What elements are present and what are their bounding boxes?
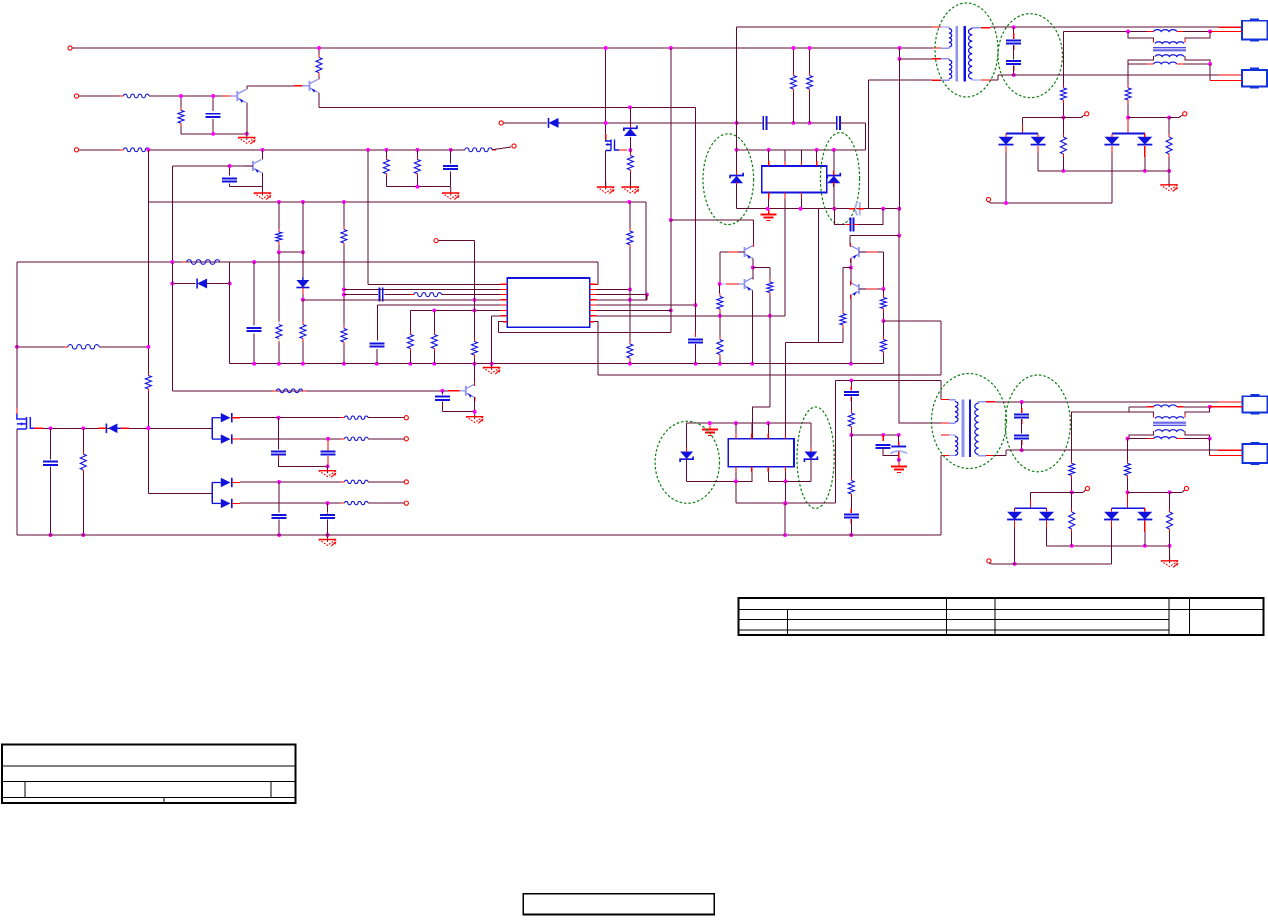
IC U2 bottom pin — [784, 199, 786, 209]
capacitor C11 — [688, 339, 703, 342]
diode D10 — [212, 434, 232, 443]
wire R40 out — [368, 481, 404, 483]
IC U2 top pin — [768, 150, 770, 161]
wire rect1 tap east — [1063, 117, 1081, 119]
transistor Q5 — [850, 246, 866, 260]
IC U2 bottom pin — [768, 199, 770, 209]
table line — [1189, 598, 1191, 635]
junction — [415, 148, 419, 152]
junction — [342, 362, 346, 366]
wire vert819 — [818, 209, 820, 343]
wire C1 top — [212, 96, 214, 111]
wire R45 bot — [1169, 532, 1171, 546]
transistor Q6 — [737, 278, 753, 292]
wire Q3 gnd link — [230, 186, 263, 188]
wire net1 top — [72, 47, 932, 49]
wire row L3 e — [442, 294, 508, 296]
table line — [739, 619, 1170, 621]
wire ct col a — [898, 435, 900, 444]
terminal J4 — [512, 144, 516, 148]
wire L3 row east — [1184, 406, 1210, 408]
wire row435 — [851, 434, 899, 436]
wire row L4 — [303, 299, 507, 301]
wire rect3 drop — [1030, 492, 1032, 503]
capacitor C16 — [844, 514, 859, 517]
junction — [432, 308, 436, 312]
wire sec bot jog v — [997, 75, 999, 80]
diode pair DP1 bracket — [1006, 132, 1038, 134]
junction — [751, 266, 755, 270]
revision box bottom — [523, 894, 714, 915]
IC U2 top pin — [816, 150, 818, 161]
wire to terminal J7 — [1179, 115, 1183, 118]
capacitor C23 — [320, 515, 335, 518]
wire rect2 tap east — [1169, 117, 1179, 119]
wire D12 out — [240, 502, 345, 504]
junction — [146, 426, 150, 430]
wire cap2 mid — [1021, 419, 1023, 433]
junction — [767, 148, 771, 152]
wire row L5 — [378, 304, 508, 306]
wire vert868 — [867, 80, 869, 209]
wire rect4 tap east — [1170, 491, 1182, 493]
wire L3 row west — [1129, 406, 1147, 408]
wire R11 bot — [1062, 103, 1064, 118]
junction — [1070, 544, 1074, 548]
transformer T1 secondary lead top — [972, 27, 981, 30]
table line — [1168, 598, 1170, 635]
transformer T2 primary winding 2 — [955, 437, 958, 456]
junction — [1070, 490, 1074, 494]
junction — [1168, 490, 1172, 494]
wire L1 row west — [1063, 31, 1147, 33]
wire col377 — [377, 305, 379, 340]
capacitor C24 — [1014, 414, 1029, 417]
wire R6R7C3 bus — [386, 186, 450, 188]
IC U1 pin R8 bend — [590, 322, 598, 332]
wire col344 c — [343, 345, 345, 364]
junction — [384, 148, 388, 152]
table line — [2, 797, 295, 799]
wire R17 top — [302, 300, 304, 322]
junction — [277, 416, 281, 420]
wire Q5 emitter link — [843, 267, 851, 269]
wire L1 row east — [1184, 31, 1211, 33]
wire Q8 cap link — [442, 411, 474, 413]
capacitor C17 bottom bend — [883, 448, 899, 455]
diode pair DP4 bracket — [211, 483, 213, 504]
wire col279 b — [278, 482, 280, 513]
capacitor C12 polarized selected — [855, 202, 860, 215]
diode D16 — [1137, 512, 1152, 520]
highlight ellipse E7 transformer T2 — [932, 374, 1007, 469]
wire C4 west — [737, 122, 764, 124]
junction — [750, 362, 754, 366]
wire vert899 c — [898, 236, 900, 424]
transformer T1 primary lead 4 — [941, 79, 949, 80]
junction — [628, 298, 632, 302]
wire D9 out — [240, 417, 345, 419]
junction — [735, 148, 739, 152]
resistor R7 — [414, 157, 420, 177]
junction — [849, 362, 853, 366]
wire vert899 b — [898, 209, 900, 236]
junction — [1143, 169, 1147, 173]
resistor R44 — [1069, 509, 1075, 532]
resistor R18 selected — [276, 322, 282, 342]
junction — [170, 260, 174, 264]
junction — [766, 207, 770, 211]
wire vert785 loop — [784, 503, 786, 535]
wire sec2 jog v — [1005, 450, 1007, 455]
wire col474 — [474, 241, 476, 339]
IC U1 right pin stubs — [590, 283, 597, 285]
wire col50 b — [50, 467, 52, 536]
capacitor C8 — [247, 328, 262, 331]
diode D9 — [212, 413, 232, 422]
junction — [211, 94, 215, 98]
choke CM1 winding bottom — [1155, 55, 1184, 57]
wire row R7 — [590, 315, 786, 317]
wire Q2 collector — [318, 76, 320, 80]
wire R10 top — [809, 48, 811, 73]
junction — [784, 479, 788, 483]
wire col720 d — [719, 358, 721, 364]
terminal J14 — [1085, 486, 1089, 490]
transformer T1 primary lead top — [941, 27, 949, 29]
inductor L2 — [1154, 62, 1177, 64]
wire col786 dn — [785, 343, 787, 439]
wire R5 west — [451, 149, 465, 151]
junction — [694, 303, 698, 307]
ground — [254, 187, 271, 200]
wire rect3 top — [1031, 491, 1072, 493]
wire vert598 up — [597, 262, 599, 284]
mosfet M2 — [606, 139, 619, 151]
resistor R9 — [790, 73, 796, 93]
IC U1 — [507, 278, 589, 327]
junction — [473, 298, 477, 302]
junction — [1012, 73, 1016, 77]
wire J2 to R1 — [79, 95, 124, 97]
table title block left — [2, 744, 295, 803]
diode pair DP6 bracket — [1112, 507, 1145, 509]
resistor R35 — [848, 410, 854, 430]
wire vert899 a — [898, 59, 900, 209]
wire vert598 — [597, 330, 599, 375]
wire rect1 top — [1023, 117, 1064, 119]
resistor R25 — [431, 332, 437, 352]
wire vert 172 upper — [171, 166, 173, 262]
wire row L2 — [344, 289, 507, 291]
capacitor C4 — [763, 116, 766, 130]
wire R6 top — [385, 150, 387, 157]
wire col50 a — [50, 428, 52, 459]
wire J9 — [438, 240, 474, 242]
junction — [342, 288, 346, 292]
capacitor C22 — [272, 515, 287, 518]
junction — [735, 121, 739, 125]
zener DZ5 — [804, 452, 817, 463]
table line — [2, 765, 295, 767]
wire T2 tap1 — [899, 422, 941, 424]
junction — [881, 287, 885, 291]
junction — [277, 362, 281, 366]
wire R14 bot — [1168, 157, 1170, 171]
wire base net391 — [172, 390, 457, 392]
junction — [415, 185, 419, 189]
wire Q5 collector row — [850, 235, 899, 237]
wire vert368 — [367, 150, 369, 284]
junction — [432, 362, 436, 366]
transistor Q2 — [302, 79, 318, 93]
wire net503 — [736, 502, 835, 504]
junction — [645, 293, 649, 297]
capacitor C19 — [43, 462, 58, 465]
wire R10 bot — [809, 92, 811, 123]
IC U3 bottom pin — [767, 472, 769, 481]
diode D8 — [106, 424, 121, 434]
wire R14 top — [1168, 118, 1170, 135]
junction — [317, 46, 321, 50]
zener DZ3 — [827, 173, 840, 184]
junction — [1208, 30, 1212, 34]
wire col410 — [409, 310, 411, 331]
junction — [881, 207, 885, 211]
wire Q1-Q2 — [247, 85, 310, 87]
transformer T1 primary winding 1 — [949, 29, 952, 48]
wire vert303 a — [302, 202, 304, 252]
wire col434 — [433, 310, 435, 331]
resistor R24 — [407, 332, 413, 352]
wire Q4 collector row — [671, 219, 754, 221]
inductor L4 — [1154, 437, 1177, 439]
choke CM2 jog TL — [1129, 407, 1154, 417]
choke CM2 jog BR — [1185, 431, 1210, 439]
wire ZR col bot — [810, 460, 812, 481]
wire M2 src — [605, 151, 607, 188]
wire Q5 emitter — [850, 259, 852, 268]
junction — [490, 362, 494, 366]
choke CM2 winding top — [1155, 417, 1184, 419]
wire R13 top — [1062, 118, 1064, 135]
terminal J15 — [1184, 486, 1188, 490]
IC U3 bottom pin — [785, 472, 787, 481]
junction — [734, 421, 738, 425]
ground — [622, 181, 640, 194]
wire Q4 base — [720, 251, 744, 253]
earth ground — [891, 463, 907, 473]
wire Q8 collector — [474, 364, 476, 385]
wire net493 — [148, 492, 212, 494]
wire col851 d — [850, 435, 852, 478]
junction — [228, 282, 232, 286]
IC U3 bottom pin — [735, 472, 737, 481]
wire D2 out — [1005, 153, 1007, 204]
junction — [366, 148, 370, 152]
resistor R6 — [383, 157, 389, 177]
resistor R45 — [1167, 509, 1173, 532]
wire D16 out — [1144, 532, 1146, 546]
highlight ellipse E4 zener DZ3 — [820, 133, 859, 225]
wire T2 gnd loop bottom — [785, 534, 941, 536]
wire sec top out — [991, 26, 1219, 28]
wire rowC — [835, 379, 941, 381]
wire Q8 emitter — [474, 397, 476, 412]
capacitor C9 — [380, 288, 383, 302]
wire vert835 — [834, 380, 836, 503]
junction — [627, 200, 631, 204]
highlight ellipse E6 zener DZ5 — [797, 407, 834, 508]
IC U2 top pin — [784, 150, 786, 161]
wire gnd bus Q1 — [181, 133, 247, 135]
highlight ellipse E1 transformer T1 — [935, 3, 998, 97]
wire R39 out — [368, 438, 404, 440]
resistor R1 — [120, 94, 154, 98]
wire ct col b — [898, 460, 900, 463]
resistor R30 — [717, 294, 723, 313]
wire cap mid — [1013, 45, 1015, 59]
wire col883 d — [882, 355, 884, 364]
junction — [252, 260, 256, 264]
terminal J10 — [404, 416, 408, 420]
wire M1 source — [16, 429, 18, 535]
junction — [211, 132, 215, 136]
wire net481 L — [687, 480, 753, 482]
wire col883 a — [882, 289, 884, 295]
wire col883 c — [882, 321, 884, 337]
terminal J5 — [499, 121, 503, 125]
wire cap stack2 bot — [1021, 440, 1023, 450]
wire to terminal J16 — [989, 562, 991, 565]
wire sec2 top out — [995, 401, 1218, 403]
junction — [146, 148, 150, 152]
wire cap stack2 top — [1021, 402, 1023, 412]
table line — [2, 781, 295, 783]
junction — [228, 164, 232, 168]
resistor R34 — [880, 337, 886, 355]
transformer T1 primary lead 3 — [941, 59, 949, 60]
wire to terminal J8 — [989, 202, 991, 204]
capacitor C13 — [850, 218, 853, 232]
capacitor C3 — [443, 166, 458, 169]
wire cap C14 bot — [441, 402, 443, 412]
connector CN4 — [1242, 442, 1267, 465]
junction — [277, 200, 281, 204]
wire col344 a — [343, 202, 345, 227]
transformer T2 secondary lead top — [979, 402, 987, 403]
wire col410 b — [409, 352, 411, 364]
resistor R39 — [341, 437, 373, 440]
transistor Q4 — [737, 246, 753, 260]
capacitor C17 — [876, 445, 891, 448]
wire rowB — [598, 374, 941, 376]
wire Q7 emitter — [850, 296, 852, 364]
highlight ellipse E8 output caps 2 — [1005, 375, 1070, 472]
terminal J12 — [404, 480, 408, 484]
resistor R3 — [316, 55, 322, 76]
wire row L1 — [368, 283, 507, 285]
junction — [897, 57, 901, 61]
capacitor C5 — [837, 116, 840, 130]
transistor Q1 — [230, 90, 246, 104]
IC U3 bottom pin — [751, 472, 753, 481]
wire C5 west — [810, 122, 837, 124]
wire R8 gnd — [629, 173, 631, 187]
wire CN4 pin2 v — [1209, 439, 1211, 456]
IC U3 top pin — [785, 423, 787, 433]
diode D2 — [999, 137, 1014, 145]
wire Q7 base — [859, 288, 884, 290]
junction — [718, 362, 722, 366]
junction — [669, 308, 673, 312]
wire D11 out — [240, 481, 345, 483]
diode D5 — [1137, 137, 1152, 145]
inductor L1 — [1154, 30, 1177, 32]
choke CM2 winding bottom — [1155, 430, 1184, 432]
resistor R33 — [880, 295, 886, 312]
wire J5 diode — [504, 122, 548, 124]
wire D3 out — [1037, 153, 1039, 171]
transformer T2 primary winding 1 — [955, 402, 958, 423]
junction — [783, 501, 787, 505]
junction — [849, 266, 853, 270]
wire net202 — [148, 201, 646, 203]
wire C1 bottom — [212, 119, 214, 134]
resistor R15 — [145, 373, 151, 393]
resistor R10 — [807, 73, 813, 93]
table line — [270, 782, 272, 798]
wire vert671 — [670, 48, 672, 310]
wire ZL col bot — [686, 460, 688, 481]
resistor R19 — [183, 260, 224, 265]
wire col851 b — [850, 397, 852, 410]
junction — [832, 148, 836, 152]
table line — [163, 798, 165, 804]
junction — [1004, 201, 1008, 205]
wire L4 row west — [1128, 438, 1148, 440]
wire cap stack top — [1013, 27, 1015, 39]
wire Q2 emitter — [318, 92, 320, 107]
wire net332 — [499, 332, 671, 334]
ground — [483, 362, 501, 375]
highlight ellipse E3 zener DZ2 — [703, 134, 754, 225]
earth ground — [761, 211, 777, 221]
terminal J9 — [434, 239, 438, 243]
junction — [791, 121, 795, 125]
wire Q4 collector — [752, 220, 754, 246]
wire Q6 emitter — [751, 291, 753, 364]
wire col720 b — [719, 312, 721, 316]
junction — [252, 362, 256, 366]
transformer T1 core — [955, 26, 958, 82]
terminal J1 — [68, 46, 72, 50]
wire R13 bot — [1062, 157, 1064, 171]
resistor R2 — [178, 107, 184, 126]
terminal J8 — [986, 197, 990, 201]
capacitor C15 — [844, 392, 859, 395]
IC U2 — [762, 166, 827, 193]
table line — [739, 629, 1170, 631]
wire Q3 base west — [172, 165, 229, 167]
resistor R17 — [300, 322, 306, 342]
wire row R5 — [590, 304, 696, 306]
wire R42 bot — [1071, 479, 1073, 493]
wire col83 a — [82, 428, 84, 451]
junction — [1126, 30, 1130, 34]
wire rect3 out bus — [1047, 545, 1170, 547]
resistor R31 — [717, 337, 723, 358]
